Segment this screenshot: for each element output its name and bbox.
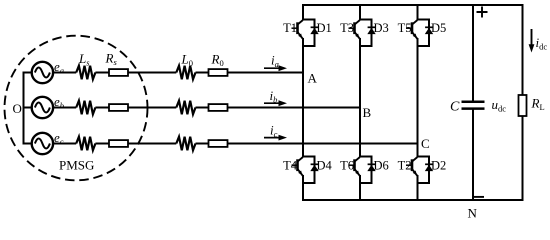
wire load branch bottom [522, 116, 524, 200]
AC source ec [32, 133, 53, 154]
svg-text:D2: D2 [431, 159, 446, 173]
wire leg A midsection [302, 46, 304, 157]
inductor Ls (phase a) [76, 66, 95, 80]
inductor L0 (phase c) [176, 137, 195, 151]
capacitor C plates [462, 102, 485, 109]
wire Rs to L0 (phase c) [128, 143, 176, 145]
wire source ea to Ls [53, 72, 76, 74]
svg-text:D3: D3 [374, 21, 389, 35]
wire positive DC rail [302, 4, 524, 6]
wire Rs to L0 (phase b) [128, 107, 176, 109]
svg-text:idc: idc [536, 35, 548, 51]
wire leg B midsection [359, 46, 361, 157]
svg-text:ea: ea [54, 59, 64, 75]
svg-text:D1: D1 [317, 21, 332, 35]
resistor Rs (phase c) [109, 140, 128, 147]
wire leg C emitter to negative rail [417, 183, 419, 200]
current arrow ib [264, 102, 281, 104]
wire R0 to node C [228, 143, 418, 145]
wire leg A collector to rail [302, 5, 304, 20]
IGBT T6 with freewheeling diode D6 [349, 156, 376, 185]
AC source ea [32, 62, 53, 83]
current arrow ic [264, 137, 281, 139]
wire L0 to R0 (phase a) [196, 72, 209, 74]
wire Ls to Rs (phase a) [95, 72, 109, 74]
svg-text:T4: T4 [283, 159, 298, 173]
svg-text:D6: D6 [374, 159, 389, 173]
IGBT T5 with freewheeling diode D5 [406, 19, 433, 48]
wire capacitor top [472, 5, 474, 101]
inductor Ls (phase c) [76, 137, 95, 151]
svg-text:udc: udc [492, 97, 507, 113]
svg-text:T5: T5 [398, 21, 412, 35]
wire Rs to L0 (phase a) [128, 72, 176, 74]
svg-text:PMSG: PMSG [59, 158, 94, 173]
svg-text:T6: T6 [340, 159, 354, 173]
svg-text:R0: R0 [211, 52, 224, 68]
inductor L0 (phase b) [176, 101, 195, 115]
wire L0 to R0 (phase c) [196, 143, 209, 145]
wire neutral bus O [23, 72, 25, 145]
IGBT T2 with freewheeling diode D2 [406, 156, 433, 185]
wire Ls to Rs (phase b) [95, 107, 109, 109]
current arrow ia [264, 67, 281, 69]
svg-text:RL: RL [531, 96, 545, 112]
svg-text:ia: ia [271, 53, 279, 69]
inductor Ls (phase b) [76, 101, 95, 115]
svg-text:L0: L0 [181, 52, 193, 68]
wire leg C midsection [417, 46, 419, 157]
svg-text:Rs: Rs [105, 51, 118, 67]
svg-text:T1: T1 [283, 21, 297, 35]
resistor Rs (phase a) [109, 69, 128, 76]
svg-text:T2: T2 [398, 159, 412, 173]
IGBT T4 with freewheeling diode D4 [292, 156, 319, 185]
svg-text:A: A [308, 71, 318, 86]
svg-text:D5: D5 [431, 21, 446, 35]
svg-text:C: C [421, 136, 430, 151]
svg-text:Ls: Ls [78, 51, 90, 67]
wire bus to source eb [23, 107, 32, 109]
current arrow idc [531, 29, 533, 46]
wire R0 to node A [228, 72, 304, 74]
wire bus to source ec [23, 143, 32, 145]
AC source eb [32, 97, 53, 118]
svg-text:ec: ec [54, 130, 64, 146]
svg-text:eb: eb [54, 94, 64, 110]
resistor R0 (phase a) [209, 69, 228, 76]
svg-text:ib: ib [270, 88, 278, 104]
wire leg A emitter to negative rail [302, 183, 304, 200]
resistor RL [519, 95, 527, 116]
inductor L0 (phase a) [176, 66, 195, 80]
wire source ec to Ls [53, 143, 76, 145]
svg-text:ic: ic [270, 123, 278, 139]
IGBT T1 with freewheeling diode D1 [292, 19, 319, 48]
wire bus to source ea [23, 72, 32, 74]
wire L0 to R0 (phase b) [196, 107, 209, 109]
wire leg C collector to rail [417, 5, 419, 20]
svg-text:O: O [13, 101, 22, 116]
wire capacitor bottom [472, 109, 474, 200]
svg-text:D4: D4 [317, 159, 333, 173]
PMSG dashed machine boundary [5, 36, 148, 181]
svg-text:N: N [468, 206, 478, 221]
wire load branch top [522, 5, 524, 95]
svg-text:B: B [363, 105, 372, 120]
wire negative DC rail [302, 199, 524, 201]
wire Ls to Rs (phase c) [95, 143, 109, 145]
minus sign (DC link polarity) [474, 196, 484, 198]
svg-text:C: C [450, 100, 460, 115]
wire R0 to node B [228, 107, 361, 109]
resistor R0 (phase c) [209, 140, 228, 147]
svg-text:T3: T3 [340, 21, 354, 35]
wire leg B emitter to negative rail [359, 183, 361, 200]
wire source eb to Ls [53, 107, 76, 109]
plus sign (DC link polarity) [477, 7, 488, 18]
resistor Rs (phase b) [109, 104, 128, 111]
resistor R0 (phase b) [209, 104, 228, 111]
IGBT T3 with freewheeling diode D3 [349, 19, 376, 48]
wire leg B collector to rail [359, 5, 361, 20]
